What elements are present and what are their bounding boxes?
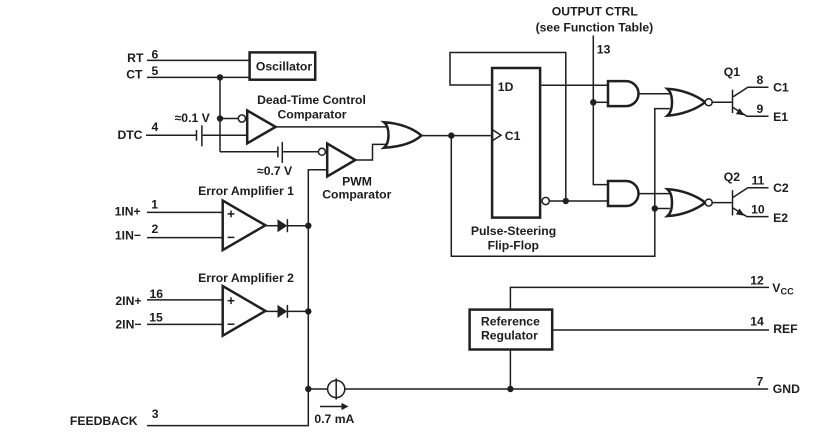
wire branch to NOR2 <box>655 208 670 210</box>
svg-text:Q1: Q1 <box>724 65 740 79</box>
svg-text:13: 13 <box>597 43 611 57</box>
node Qbar feedback junction <box>563 198 569 204</box>
wire NOR1 to Q1 base <box>712 101 732 103</box>
diode D1 <box>265 225 277 227</box>
wire AND1 output <box>638 93 670 95</box>
wire 1IN- pin line <box>147 237 223 239</box>
svg-text:2IN+: 2IN+ <box>115 294 141 308</box>
node CT junction <box>217 74 223 80</box>
node output-ctrl to AND1 <box>590 99 596 105</box>
wire 2IN+ pin line <box>147 299 223 301</box>
svg-text:Q2: Q2 <box>724 170 740 184</box>
node trunk-GND junction <box>305 386 311 392</box>
node OR output junction <box>448 132 454 138</box>
battery 0.1V <box>196 130 198 141</box>
svg-text:1IN+: 1IN+ <box>115 205 141 219</box>
svg-text:1: 1 <box>151 198 158 212</box>
node ref-reg GND junction <box>507 386 513 392</box>
wire NOR2 to Q2 base <box>712 202 732 204</box>
svg-text:Comparator: Comparator <box>277 108 346 122</box>
AND gate bottom <box>608 181 639 206</box>
wire DTC pin line <box>146 134 196 136</box>
arrow current direction <box>320 406 343 408</box>
wire CT pin line <box>147 76 249 78</box>
diode D2 <box>265 310 277 312</box>
wire AND2 output <box>638 193 670 195</box>
NOR gate top <box>668 89 706 116</box>
op-amp DTC comparator <box>247 111 275 144</box>
wire battery to DTC comparator <box>203 134 247 136</box>
svg-text:GND: GND <box>773 382 800 396</box>
current source 0.7mA <box>308 388 327 390</box>
svg-text:RT: RT <box>127 51 144 65</box>
svg-text:10: 10 <box>751 203 765 217</box>
inverting bubble NOR2 output <box>705 199 712 206</box>
svg-text:≈0.7 V: ≈0.7 V <box>257 164 293 178</box>
wire PWM signal to NOR gates <box>451 109 670 257</box>
wire Q output to AND1 <box>541 84 609 86</box>
wire REF <box>553 329 769 331</box>
wire battery to PWM bubble <box>283 151 318 153</box>
svg-text:OUTPUT CTRL: OUTPUT CTRL <box>552 5 639 19</box>
svg-text:Flip-Flop: Flip-Flop <box>488 238 539 252</box>
svg-text:C2: C2 <box>773 181 789 195</box>
svg-text:6: 6 <box>152 48 159 62</box>
svg-text:7: 7 <box>757 374 764 388</box>
svg-text:0.7 mA: 0.7 mA <box>314 412 354 426</box>
wire Qbar to AND2 <box>549 200 609 202</box>
svg-text:E2: E2 <box>773 211 788 225</box>
wire OR output <box>421 135 490 137</box>
wire output-ctrl vertical <box>593 36 609 185</box>
wire GND rail <box>345 388 768 390</box>
wire PWM output to OR <box>355 144 387 160</box>
wire 1IN+ pin line <box>147 211 223 213</box>
svg-text:14: 14 <box>750 315 764 329</box>
svg-text:E1: E1 <box>773 110 788 124</box>
reference regulator block <box>470 310 553 350</box>
wire branch to DTC bubble <box>220 118 238 120</box>
wire D-input feedback loop <box>450 53 566 202</box>
svg-text:Oscillator: Oscillator <box>256 60 312 74</box>
svg-text:Comparator: Comparator <box>322 188 391 202</box>
svg-text:C1: C1 <box>505 129 521 143</box>
svg-text:DTC: DTC <box>117 128 142 142</box>
NOR gate bottom <box>668 189 706 216</box>
svg-text:1D: 1D <box>498 80 514 94</box>
wire ref-reg to GND <box>509 351 511 389</box>
svg-text:1IN−: 1IN− <box>115 229 141 243</box>
inverting bubble PWM comparator input <box>318 148 325 155</box>
svg-text:Error Amplifier 2: Error Amplifier 2 <box>198 271 294 285</box>
inverting bubble NOR1 output <box>705 99 712 106</box>
svg-text:CT: CT <box>126 67 143 81</box>
svg-text:Reference: Reference <box>481 315 540 329</box>
wire RT pin line <box>147 59 249 61</box>
inverting bubble Qbar output <box>542 197 549 204</box>
svg-text:9: 9 <box>757 102 764 116</box>
svg-text:11: 11 <box>751 174 764 188</box>
svg-text:15: 15 <box>149 310 163 324</box>
svg-text:4: 4 <box>152 120 159 134</box>
wire 2IN- pin line <box>147 323 223 325</box>
node EA1 output junction <box>305 223 311 229</box>
wire CT offset branch to PWM <box>220 151 277 153</box>
svg-text:FEEDBACK: FEEDBACK <box>70 414 138 428</box>
svg-text:Pulse-Steering: Pulse-Steering <box>471 224 556 238</box>
svg-text:12: 12 <box>750 273 764 287</box>
svg-text:5: 5 <box>152 64 159 78</box>
svg-text:8: 8 <box>757 73 764 87</box>
wire branch to AND1 <box>593 101 609 103</box>
battery 0.7V <box>277 147 279 158</box>
inverting bubble DTC comparator input <box>238 115 245 122</box>
OR gate U3 <box>384 122 421 148</box>
svg-text:≈0.1 V: ≈0.1 V <box>175 111 211 125</box>
node EA2 output junction <box>305 308 311 314</box>
flip-flop box <box>492 68 540 218</box>
svg-text:16: 16 <box>150 287 164 301</box>
svg-text:2: 2 <box>152 222 159 236</box>
wire feedback trunk <box>147 170 327 426</box>
oscillator block <box>250 52 316 79</box>
wire DTC comparator output to OR <box>276 126 388 128</box>
svg-text:Dead-Time Control: Dead-Time Control <box>257 93 366 107</box>
wire VCC <box>510 287 769 308</box>
svg-text:Regulator: Regulator <box>481 329 538 343</box>
node NOR2 branch <box>652 205 658 211</box>
clock chevron C1 <box>493 130 502 141</box>
node CT-to-DTC branch <box>217 115 223 121</box>
op-amp PWM comparator <box>327 144 355 177</box>
svg-text:Error Amplifier 1: Error Amplifier 1 <box>198 184 294 198</box>
svg-text:3: 3 <box>152 407 159 421</box>
svg-text:(see Function Table): (see Function Table) <box>536 20 654 34</box>
svg-text:2IN−: 2IN− <box>115 318 141 332</box>
AND gate top <box>608 81 639 106</box>
wire CT vertical to comparators <box>219 77 221 151</box>
svg-text:REF: REF <box>773 322 797 336</box>
svg-text:C1: C1 <box>773 80 789 94</box>
